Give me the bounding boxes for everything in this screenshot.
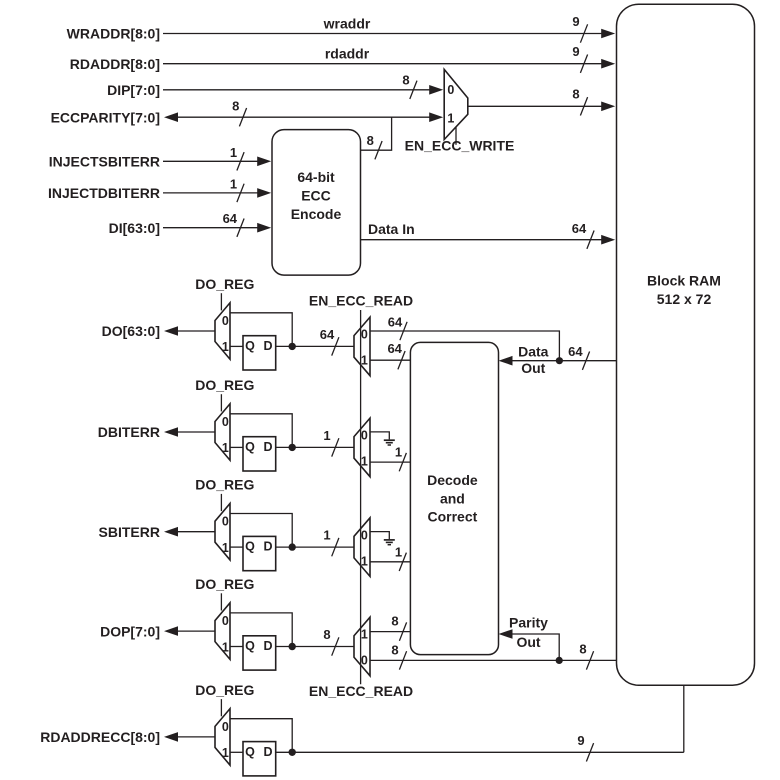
bus slash (DIP) [410, 81, 417, 99]
arrowhead out DOP[7:0] [164, 626, 178, 636]
bus slash (read mux1 in1) [398, 351, 405, 369]
mux DO_REG (group 4) [215, 603, 230, 660]
wire junction to read mux (group 4) [292, 646, 354, 648]
bus slash (group 2) [332, 438, 339, 456]
svg-text:D: D [263, 440, 272, 454]
svg-text:64: 64 [572, 221, 587, 236]
wire DO_REG mux input1 to FF Q (group 3) [230, 546, 243, 548]
wire DO_REG mux input1 to FF Q (group 1) [230, 345, 243, 347]
svg-text:Q: Q [245, 745, 255, 759]
svg-text:512 x 72: 512 x 72 [657, 291, 712, 307]
svg-text:8: 8 [232, 98, 239, 113]
arrowhead into write mux input 0 [429, 85, 443, 95]
bus slash (group 4) [332, 637, 339, 655]
mux EN_ECC_READ (group 2) [354, 418, 370, 477]
junction dot (group 4) [289, 643, 296, 650]
svg-text:Encode: Encode [291, 206, 342, 222]
svg-text:DI[63:0]: DI[63:0] [109, 220, 160, 236]
wire read mux2 input0 to ground [370, 432, 389, 440]
svg-text:1: 1 [222, 746, 229, 760]
wire INJECTSBITERR [163, 160, 258, 162]
wire Parity Out elbow [513, 634, 560, 660]
svg-text:1: 1 [361, 628, 368, 642]
svg-text:1: 1 [323, 528, 330, 543]
svg-text:Out: Out [516, 634, 540, 650]
wire DO_REG mux input1 to FF Q (group 2) [230, 446, 243, 448]
svg-text:RDADDRECC[8:0]: RDADDRECC[8:0] [40, 729, 160, 745]
wire DO_REG mux input1 to FF Q (group 5) [230, 751, 243, 753]
svg-text:Data: Data [518, 343, 549, 359]
wire EN_ECC_READ select line [360, 310, 362, 684]
bus slash (Data Out) [582, 352, 589, 370]
svg-text:1: 1 [361, 354, 368, 368]
svg-text:1: 1 [395, 544, 402, 559]
wire output DOP[7:0] [178, 630, 215, 632]
svg-text:EN_ECC_READ: EN_ECC_READ [309, 293, 413, 309]
svg-text:1: 1 [222, 541, 229, 555]
DO_REG stub (group 1) [220, 293, 222, 310]
svg-text:1: 1 [230, 145, 237, 160]
wire DO_REG mux input0 elbow (group 5) [230, 719, 292, 753]
bus slash (read mux1 in0) [400, 322, 407, 340]
ground symbol (group 3) [384, 539, 395, 541]
svg-text:DO_REG: DO_REG [195, 276, 254, 292]
svg-text:8: 8 [323, 627, 330, 642]
svg-text:DIP[7:0]: DIP[7:0] [107, 82, 160, 98]
wire DO_REG mux input1 to FF Q (group 4) [230, 646, 243, 648]
wire DI[63:0] [163, 227, 258, 229]
svg-text:1: 1 [222, 441, 229, 455]
junction dot (group 3) [289, 543, 296, 550]
arrowhead out DO[63:0] [164, 326, 178, 336]
svg-text:Parity: Parity [509, 615, 548, 631]
bus slash (wraddr) [580, 24, 587, 42]
svg-text:8: 8 [367, 133, 374, 148]
flip-flop register (group 1) [243, 336, 276, 370]
bus slash (group 1) [332, 337, 339, 355]
select stub EN_ECC_WRITE [455, 127, 457, 145]
bus slash (read mux2 in1) [399, 453, 406, 471]
mux DO_REG (group 2) [215, 404, 230, 461]
svg-text:8: 8 [391, 643, 398, 658]
wire FF D to junction (group 3) [276, 546, 293, 548]
flip-flop register (group 3) [243, 536, 276, 570]
svg-text:EN_ECC_WRITE: EN_ECC_WRITE [405, 137, 515, 153]
wire encoder parity output elbow [361, 117, 392, 150]
svg-text:DO_REG: DO_REG [195, 377, 254, 393]
bus slash (read mux3 in1) [399, 553, 406, 571]
svg-text:Q: Q [245, 639, 255, 653]
svg-text:INJECTDBITERR: INJECTDBITERR [48, 185, 160, 201]
wire DO_REG mux input0 elbow (group 3) [230, 514, 292, 548]
svg-text:1: 1 [447, 112, 454, 126]
svg-text:0: 0 [361, 429, 368, 443]
wire INJECTDBITERR [163, 192, 258, 194]
svg-text:8: 8 [391, 614, 398, 629]
wire FF D to junction (group 1) [276, 345, 293, 347]
svg-text:Correct: Correct [428, 509, 478, 525]
svg-text:D: D [263, 339, 272, 353]
flip-flop register (group 5) [243, 742, 276, 776]
arrowhead into Block RAM (wraddr) [601, 29, 615, 39]
wire read mux2 input1 from Decode [370, 461, 410, 463]
wire write mux output [468, 105, 602, 107]
svg-text:Block RAM: Block RAM [647, 273, 721, 289]
wire FF D to junction (group 2) [276, 446, 293, 448]
svg-text:8: 8 [572, 87, 579, 102]
svg-text:0: 0 [222, 415, 229, 429]
svg-text:1: 1 [361, 554, 368, 568]
ground symbol (group 2) [384, 439, 395, 441]
block 64-bit ECC Encode [272, 130, 361, 276]
arrowhead into encoder (INJECTSBITERR) [257, 157, 271, 167]
bus slash (DI[63:0]) [237, 219, 244, 237]
svg-text:ECCPARITY[7:0]: ECCPARITY[7:0] [51, 109, 160, 125]
svg-text:rdaddr: rdaddr [325, 46, 370, 62]
wire output SBITERR [178, 531, 215, 533]
wire wraddr [163, 33, 602, 35]
bus slash (read mux4 in0) [399, 651, 406, 669]
svg-text:ECC: ECC [301, 188, 331, 204]
svg-text:D: D [263, 639, 272, 653]
svg-text:1: 1 [222, 640, 229, 654]
svg-text:1: 1 [361, 455, 368, 469]
svg-text:9: 9 [572, 44, 579, 59]
wire Parity Out row [370, 659, 617, 661]
wire ECCPARITY / encoder parity to write mux input 1 [178, 116, 430, 118]
svg-text:D: D [263, 540, 272, 554]
mux DO_REG (group 3) [215, 503, 230, 560]
wire junction to read mux (group 2) [292, 446, 354, 448]
svg-text:RDADDR[8:0]: RDADDR[8:0] [70, 56, 160, 72]
mux DO_REG (group 1) [215, 303, 230, 360]
svg-text:and: and [440, 491, 465, 507]
bus slash (INJECTSBITERR) [237, 152, 244, 170]
arrowhead into encoder (INJECTDBITERR) [257, 188, 271, 198]
svg-text:Q: Q [245, 440, 255, 454]
arrowhead into encoder (DI[63:0]) [257, 223, 271, 233]
svg-text:EN_ECC_READ: EN_ECC_READ [309, 683, 413, 699]
block Block RAM 512x72 [617, 4, 755, 685]
svg-text:9: 9 [572, 14, 579, 29]
svg-text:DO_REG: DO_REG [195, 477, 254, 493]
svg-text:Q: Q [245, 540, 255, 554]
wire DO_REG mux input0 elbow (group 4) [230, 613, 292, 647]
svg-text:Q: Q [245, 339, 255, 353]
svg-text:WRADDR[8:0]: WRADDR[8:0] [67, 26, 160, 42]
svg-text:8: 8 [402, 72, 409, 87]
wire FF D to junction (group 5) [276, 751, 293, 753]
wire Block RAM bottom vertical (rdaddrecc) [683, 685, 685, 752]
arrowhead into Block RAM (Data In) [601, 235, 615, 245]
bus slash (rdaddr) [580, 55, 587, 73]
svg-text:64: 64 [320, 327, 335, 342]
wire FF D to junction (group 4) [276, 646, 293, 648]
svg-text:0: 0 [447, 83, 454, 97]
wire DO_REG mux input0 elbow (group 2) [230, 414, 292, 448]
arrowhead into write mux input 1 [429, 112, 443, 122]
svg-text:SBITERR: SBITERR [99, 524, 160, 540]
svg-text:0: 0 [361, 528, 368, 542]
bus slash (Parity Out) [586, 651, 593, 669]
svg-text:0: 0 [222, 720, 229, 734]
bus slash (encoder parity) [375, 141, 382, 159]
svg-text:64: 64 [223, 211, 238, 226]
arrowhead into Block RAM (rdaddr) [601, 59, 615, 69]
arrowhead into Block RAM (parity in) [601, 102, 615, 112]
wire Data Out [513, 360, 617, 362]
wire output DBITERR [178, 431, 215, 433]
flip-flop register (group 4) [243, 636, 276, 670]
svg-text:INJECTSBITERR: INJECTSBITERR [49, 154, 160, 170]
junction dot (group 5) [289, 749, 296, 756]
arrowhead into Decode (Parity Out) [499, 629, 513, 639]
mux EN_ECC_READ (group 4) [354, 617, 370, 676]
svg-text:DO_REG: DO_REG [195, 682, 254, 698]
svg-text:D: D [263, 745, 272, 759]
bus slash (ECCPARITY) [239, 108, 246, 126]
DO_REG stub (group 3) [220, 494, 222, 511]
wire DIP [163, 89, 430, 91]
wire output DO[63:0] [178, 330, 215, 332]
svg-text:0: 0 [361, 328, 368, 342]
svg-text:DOP[7:0]: DOP[7:0] [100, 623, 160, 639]
bus slash (rdaddrecc) [586, 743, 593, 761]
svg-text:DO[63:0]: DO[63:0] [102, 323, 160, 339]
svg-text:8: 8 [579, 642, 586, 657]
svg-text:0: 0 [222, 314, 229, 328]
wire junction to Block RAM bottom (rdaddrecc) [292, 751, 684, 753]
wire Data In [361, 239, 602, 241]
wire read mux4 input1 from Decode [370, 631, 410, 633]
wire junction to read mux (group 3) [292, 546, 354, 548]
svg-text:9: 9 [577, 733, 584, 748]
svg-text:Out: Out [521, 360, 545, 376]
svg-text:Decode: Decode [427, 472, 478, 488]
arrowhead into Decode (Data Out) [499, 356, 513, 366]
mux EN_ECC_READ (group 1) [354, 317, 370, 376]
svg-text:0: 0 [222, 614, 229, 628]
arrowhead out DBITERR [164, 427, 178, 437]
svg-text:DO_REG: DO_REG [195, 576, 254, 592]
wire read mux3 input1 from Decode [370, 561, 410, 563]
junction dot (group 1) [289, 343, 296, 350]
wire rdaddr [163, 63, 602, 65]
bus slash (read mux4 in1) [399, 622, 406, 640]
DO_REG stub (group 5) [220, 699, 222, 716]
bus slash (INJECTDBITERR) [237, 184, 244, 202]
junction dot (Parity Out) [556, 657, 563, 664]
wire read mux1 input1 from Decode [370, 359, 410, 361]
junction dot (Data Out) [556, 357, 563, 364]
wire junction to read mux (group 1) [292, 345, 354, 347]
mux EN_ECC_READ (group 3) [354, 518, 370, 577]
svg-text:0: 0 [361, 654, 368, 668]
svg-text:64: 64 [387, 341, 402, 356]
arrowhead out ECCPARITY [164, 112, 178, 122]
svg-text:wraddr: wraddr [323, 16, 371, 32]
arrowhead out SBITERR [164, 527, 178, 537]
svg-text:1: 1 [395, 445, 402, 460]
mux DO_REG (group 5) [215, 709, 230, 766]
DO_REG stub (group 2) [220, 394, 222, 411]
svg-text:1: 1 [222, 340, 229, 354]
svg-text:1: 1 [230, 176, 237, 191]
wire output RDADDRECC[8:0] [178, 736, 215, 738]
wire DO_REG mux input0 elbow (group 1) [230, 313, 292, 347]
block Decode and Correct [410, 342, 498, 654]
arrowhead out RDADDRECC[8:0] [164, 732, 178, 742]
svg-text:Data In: Data In [368, 221, 415, 237]
svg-text:0: 0 [222, 515, 229, 529]
flip-flop register (group 2) [243, 437, 276, 471]
svg-text:64: 64 [388, 315, 403, 330]
svg-text:64-bit: 64-bit [297, 169, 335, 185]
svg-text:1: 1 [323, 428, 330, 443]
junction dot (group 2) [289, 444, 296, 451]
wire read mux3 input0 to ground [370, 532, 389, 540]
wire read mux1 input0 from Data Out [370, 331, 559, 361]
bus slash (parity in) [580, 97, 587, 115]
bus slash (Data In) [587, 231, 594, 249]
bus slash (group 3) [332, 538, 339, 556]
mux EN_ECC_WRITE [444, 69, 468, 139]
svg-text:DBITERR: DBITERR [98, 424, 160, 440]
DO_REG stub (group 4) [220, 593, 222, 610]
svg-text:64: 64 [568, 344, 583, 359]
